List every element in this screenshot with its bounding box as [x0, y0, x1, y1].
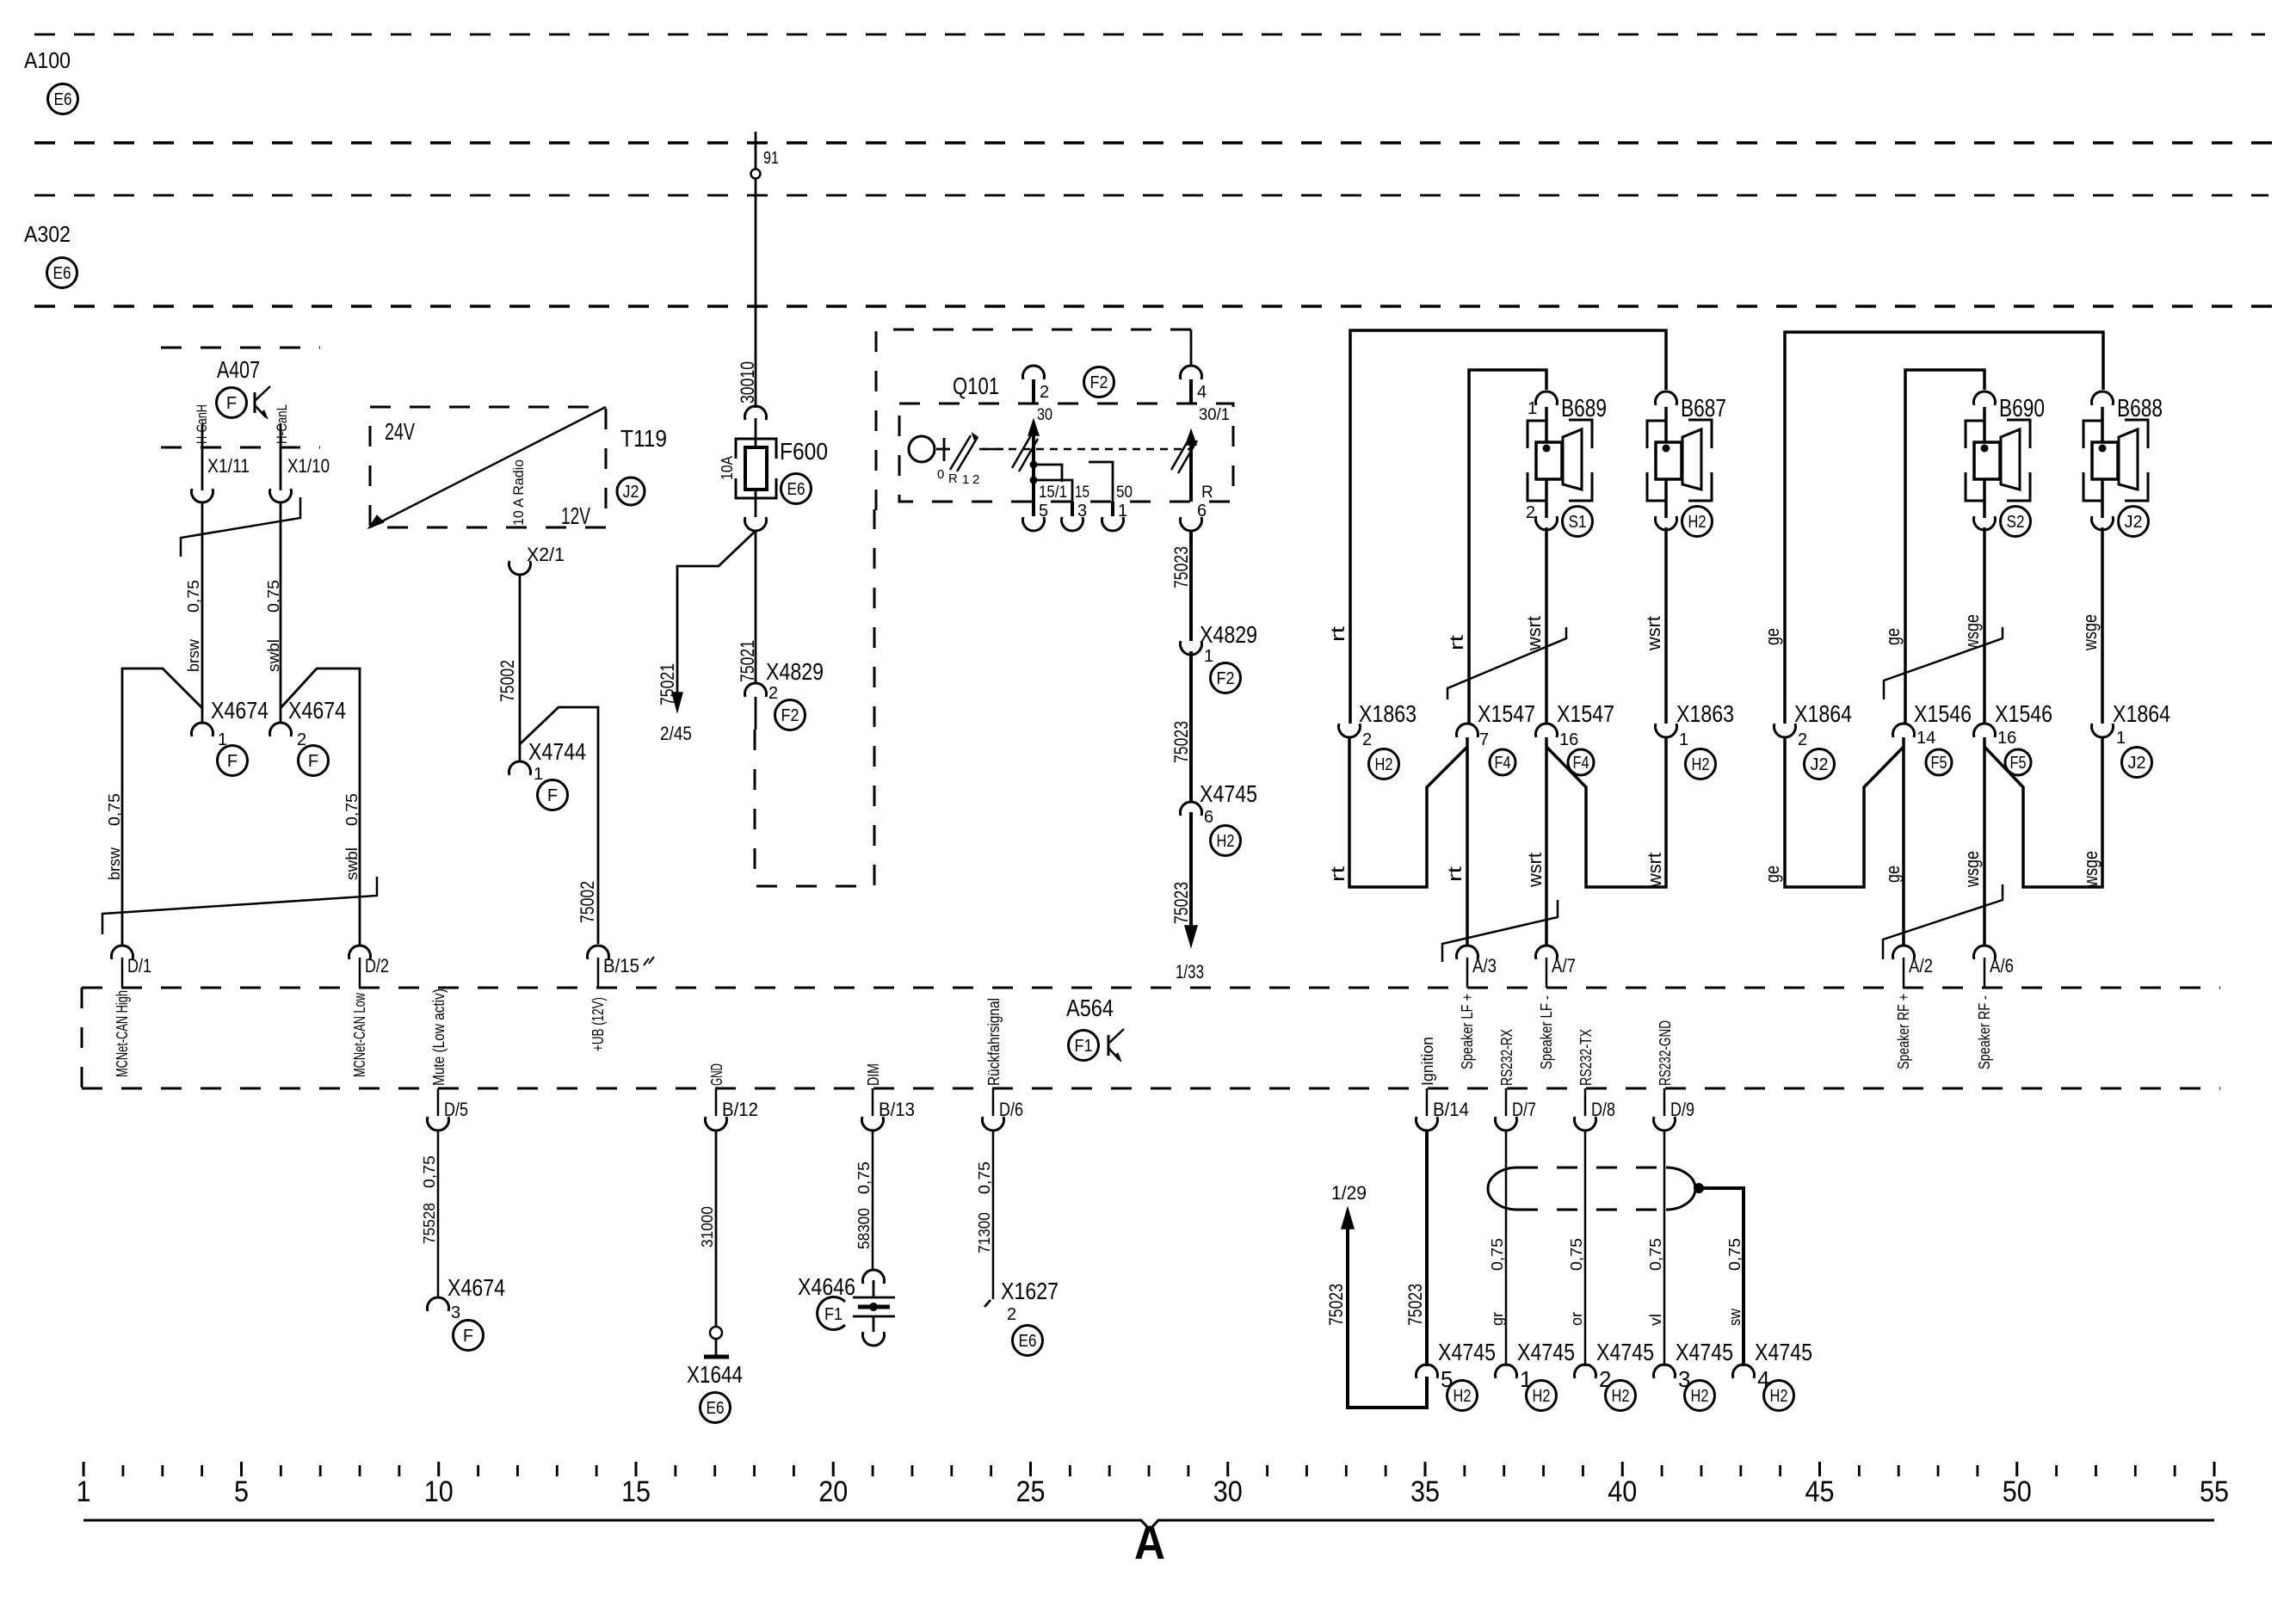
svg-text:1: 1: [1520, 1366, 1532, 1392]
svg-text:14: 14: [1916, 729, 1935, 748]
svg-text:swbl: swbl: [343, 847, 361, 880]
svg-text:X1/11: X1/11: [207, 455, 250, 477]
sheet ref J2 for X1864.1: [2122, 748, 2152, 778]
connector X1627 pin 2: [984, 1300, 991, 1307]
svg-text:X1644: X1644: [687, 1361, 743, 1388]
svg-text:S1: S1: [1569, 513, 1587, 532]
svg-text:X4646: X4646: [798, 1273, 855, 1300]
mechanical coupling dashed line: [981, 448, 1191, 451]
svg-text:2: 2: [972, 472, 979, 487]
wire 75023 to 1/29 arrow: [1348, 1228, 1427, 1408]
wire 75021 fuse to X4829.2: [755, 531, 757, 682]
svg-text:H2: H2: [1454, 1387, 1472, 1406]
svg-text:F2: F2: [781, 706, 799, 725]
svg-text:wsge: wsge: [1961, 851, 1983, 888]
svg-text:10A: 10A: [719, 456, 736, 480]
svg-text:H2: H2: [1217, 832, 1235, 851]
svg-text:gr: gr: [1489, 1312, 1506, 1326]
sheet ref E6 for X1644: [701, 1393, 731, 1423]
svg-text:F: F: [463, 1327, 473, 1346]
svg-text:0,75: 0,75: [976, 1161, 993, 1194]
svg-text:J2: J2: [1811, 755, 1829, 774]
svg-text:F2: F2: [1217, 669, 1235, 688]
svg-text:7: 7: [1479, 730, 1489, 749]
connector X1863 pin 1: [1656, 724, 1677, 737]
svg-text:swbl: swbl: [265, 639, 282, 672]
svg-text:30/1: 30/1: [1199, 406, 1230, 424]
svg-text:2: 2: [1798, 730, 1807, 749]
svg-text:6: 6: [1204, 808, 1213, 827]
svg-text:X1546: X1546: [1914, 700, 1972, 727]
svg-text:B687: B687: [1681, 395, 1726, 422]
connector Q101 pin 5: [1032, 482, 1035, 516]
wire wsge to A/6: [1983, 737, 1986, 946]
svg-text:X4674: X4674: [211, 697, 268, 724]
svg-text:X2/1: X2/1: [527, 544, 565, 565]
svg-text:+UB (12V): +UB (12V): [589, 997, 607, 1051]
svg-text:75021: 75021: [657, 663, 678, 705]
branch wire 75021 to 2/45: [677, 531, 756, 699]
connector X4829 pin 2: [744, 683, 766, 697]
transistor symbol in A407: [254, 392, 256, 413]
svg-text:0,75: 0,75: [1726, 1238, 1744, 1271]
shield drain junction dot: [1694, 1183, 1704, 1193]
wire bus line 4 (module A302 bottom): [34, 305, 2286, 308]
connector Q101 pin 6: [1181, 517, 1202, 531]
connector X4674 pin 3: [428, 1297, 449, 1311]
svg-text:X1547: X1547: [1557, 700, 1614, 727]
svg-text:F1: F1: [824, 1305, 842, 1324]
svg-text:wsrt: wsrt: [1523, 616, 1545, 651]
connector below F600: [745, 517, 767, 531]
radio unit A564 dashed box left edge: [81, 988, 83, 1088]
svg-text:20: 20: [818, 1476, 848, 1508]
svg-text:2: 2: [768, 684, 778, 703]
svg-text:or: or: [1568, 1312, 1585, 1326]
svg-text:Q101: Q101: [953, 373, 999, 399]
fuse F600 element: [745, 447, 767, 490]
svg-text:A/6: A/6: [1990, 955, 2014, 977]
svg-text:A564: A564: [1066, 995, 1114, 1021]
svg-text:brsw: brsw: [185, 638, 202, 672]
sheet ref F1 for A564: [1069, 1031, 1099, 1061]
sheet ref F2 for X4829.1: [1211, 663, 1241, 693]
svg-text:1: 1: [1118, 502, 1127, 521]
svg-text:F1: F1: [1075, 1037, 1093, 1056]
wire loop inner right (ge to B690): [1905, 370, 1984, 724]
speaker B688: [2083, 421, 2102, 448]
svg-text:75002: 75002: [577, 881, 598, 923]
svg-text:12V: 12V: [561, 502, 590, 529]
control unit A407 dashed box: [161, 347, 320, 349]
wire 75023 to 1/33 arrow: [1189, 812, 1193, 931]
connector D/6 on A564: [992, 1088, 995, 1116]
connector X4745 pin 1: [1496, 1365, 1517, 1378]
svg-text:2: 2: [1007, 1305, 1016, 1324]
svg-text:B689: B689: [1561, 395, 1607, 422]
svg-text:A/3: A/3: [1472, 955, 1497, 977]
svg-text:E6: E6: [707, 1399, 725, 1418]
ignition switch Q101 outer dashed box: [876, 330, 1191, 511]
wire wsrt from B687 to X1863.1: [1664, 527, 1668, 724]
svg-text:rt: rt: [1327, 866, 1349, 882]
ground bar X1644: [704, 1355, 729, 1359]
svg-text:F5: F5: [1931, 754, 1947, 773]
svg-text:0,75: 0,75: [1647, 1238, 1664, 1271]
connector X1/10: [270, 489, 292, 502]
wire wsrt from B689.2 to X1547.16: [1545, 527, 1548, 724]
wire loop inner left (rt to B689): [1469, 370, 1546, 724]
svg-text:3: 3: [451, 1303, 460, 1322]
harness funnel left X4674 to D/1: [122, 668, 202, 946]
svg-text:75023: 75023: [1325, 1284, 1347, 1326]
svg-text:R: R: [948, 471, 958, 486]
connector X1547 pin 7: [1457, 724, 1478, 737]
svg-text:wsrt: wsrt: [1644, 853, 1665, 888]
svg-text:75023: 75023: [1170, 546, 1192, 588]
connector Q101 pin 2: [1023, 366, 1045, 379]
sheet ref H2 for X4745.3: [1685, 1381, 1715, 1411]
sheet ref F2 for Q101: [1084, 367, 1114, 397]
connector X2/1: [509, 561, 530, 575]
svg-text:A302: A302: [24, 221, 71, 247]
svg-text:D/5: D/5: [444, 1099, 468, 1120]
svg-text:J2: J2: [2125, 513, 2143, 532]
connector B/15 on A564: [588, 946, 609, 959]
shield oval around RS232 wires: [1517, 1167, 1666, 1169]
svg-text:16: 16: [1997, 729, 2016, 748]
svg-text:T119: T119: [620, 425, 667, 452]
svg-text:10: 10: [424, 1476, 454, 1508]
svg-text:ge: ge: [1882, 628, 1904, 645]
svg-text:GND: GND: [708, 1063, 725, 1086]
wire brsw 0,75 from X1/11 to X4674 pin1: [201, 502, 204, 723]
sheet ref F5 for X1546.16: [2005, 749, 2031, 775]
svg-text:0,75: 0,75: [1489, 1238, 1506, 1271]
connector X1863 pin 2: [1338, 724, 1360, 737]
connector A/7 on A564: [1536, 946, 1558, 959]
connector D/8 on A564: [1584, 1088, 1587, 1116]
svg-text:1: 1: [77, 1476, 91, 1508]
svg-text:E6: E6: [53, 264, 71, 283]
voltage converter T119 dashed box: [370, 407, 606, 527]
connector A/2 on A564: [1893, 946, 1915, 959]
connector Q101 pin 1: [1111, 502, 1114, 516]
connector A/6 on A564: [1974, 946, 1996, 959]
svg-text:30: 30: [1213, 1476, 1243, 1508]
twisted pair mark right speakers: [1884, 627, 2003, 699]
wire gr from D/7 to X4745.1: [1505, 1131, 1508, 1366]
svg-text:15: 15: [621, 1476, 651, 1508]
svg-text:H2: H2: [1688, 513, 1707, 532]
svg-text:50: 50: [1116, 484, 1133, 502]
wire X1/10 stub: [280, 423, 282, 490]
node 91 terminal circle: [751, 169, 761, 179]
svg-text:X1/10: X1/10: [287, 455, 330, 477]
connector D/7 on A564: [1505, 1088, 1508, 1116]
svg-text:1: 1: [534, 765, 543, 784]
svg-text:55: 55: [2200, 1476, 2229, 1508]
svg-text:Speaker LF +: Speaker LF +: [1459, 994, 1476, 1069]
svg-text:H2: H2: [1691, 1387, 1709, 1406]
svg-text:0: 0: [937, 467, 944, 482]
terminal circle X1644: [710, 1327, 722, 1339]
svg-text:0,75: 0,75: [1568, 1238, 1585, 1271]
svg-text:X4674: X4674: [288, 697, 346, 724]
sheet ref J2 for X1864.2: [1805, 749, 1835, 779]
svg-text:wsge: wsge: [2079, 614, 2101, 651]
connector X4646 top: [862, 1270, 884, 1284]
svg-text:D/7: D/7: [1512, 1099, 1536, 1120]
svg-text:H2: H2: [1375, 755, 1393, 774]
svg-text:MCNet-CAN Low: MCNet-CAN Low: [351, 992, 368, 1077]
scale ruler: [83, 1462, 85, 1476]
svg-text:ge: ge: [1762, 866, 1783, 883]
sheet ref E6 for A100: [48, 84, 78, 114]
switch wiper 0/R/1/2: [950, 435, 971, 470]
svg-text:6: 6: [1197, 502, 1207, 521]
switch contact R (right): [1189, 443, 1193, 502]
connector X4745 pin 3: [1653, 1365, 1675, 1378]
svg-text:24V: 24V: [385, 418, 415, 445]
twisted pair mark below A407: [181, 497, 300, 557]
harness funnel right X4674 to D/2: [281, 668, 360, 946]
svg-text:0,75: 0,75: [106, 793, 123, 826]
svg-text:A/7: A/7: [1552, 955, 1576, 977]
sheet ref F for X4674.3: [454, 1321, 484, 1351]
svg-text:X1627: X1627: [1001, 1278, 1059, 1304]
svg-text:wsrt: wsrt: [1524, 853, 1546, 888]
svg-text:H2: H2: [1692, 755, 1710, 774]
svg-text:4: 4: [1197, 383, 1207, 402]
svg-text:X1864: X1864: [2113, 700, 2170, 727]
svg-text:A407: A407: [217, 356, 260, 383]
svg-text:D/9: D/9: [1670, 1099, 1694, 1120]
wire 75528 from D/5 to X4674.3: [437, 1131, 440, 1297]
svg-text:Mute (Low activ): Mute (Low activ): [430, 989, 447, 1086]
connector X1546 pin 14: [1893, 724, 1915, 737]
sheet ref F5 for X1546.14: [1926, 749, 1952, 775]
svg-text:ge: ge: [1882, 866, 1904, 883]
svg-text:X4745: X4745: [1755, 1339, 1812, 1365]
svg-text:45: 45: [1805, 1476, 1835, 1508]
wire X1/11 stub: [201, 423, 204, 490]
svg-text:91: 91: [763, 149, 779, 168]
link to pin 3 terminal 15: [1034, 480, 1072, 502]
svg-text:1/33: 1/33: [1176, 961, 1204, 983]
svg-text:E6: E6: [787, 480, 805, 499]
wire 30010 from bus to fuse F600: [755, 132, 757, 408]
wire 31000 from B/12 to ground X1644: [715, 1131, 718, 1327]
wire wsge from B690 to X1546.16: [1983, 527, 1986, 724]
connector X4745 pin 5: [1416, 1365, 1437, 1378]
wire 75002 from X2/1 to X4744: [519, 575, 522, 761]
svg-text:2: 2: [1599, 1366, 1611, 1392]
svg-text:B/13: B/13: [879, 1099, 915, 1120]
sheet ref H2 for X4745.5: [1447, 1381, 1478, 1411]
svg-text:0,75: 0,75: [421, 1155, 438, 1188]
connector X1547 pin 16: [1536, 724, 1558, 737]
svg-text:1: 1: [962, 472, 969, 487]
svg-text:rt: rt: [1327, 626, 1349, 642]
svg-text:J2: J2: [2128, 754, 2146, 773]
svg-text:Speaker LF -: Speaker LF -: [1538, 995, 1555, 1069]
connector B/12 on A564: [715, 1088, 718, 1116]
svg-text:75528: 75528: [421, 1203, 438, 1244]
sheet ref E6 for X1627: [1013, 1326, 1043, 1356]
svg-text:3: 3: [1678, 1366, 1690, 1392]
svg-text:H2: H2: [1533, 1387, 1551, 1406]
sheet ref F4 for X1547.7: [1490, 749, 1515, 775]
ruler baseline with pointer A: [83, 1520, 2214, 1530]
connector B/14 on A564: [1426, 1088, 1429, 1116]
arrow to 2/45: [672, 693, 682, 712]
footnote mark at B/15: [644, 957, 654, 965]
svg-text:R: R: [1201, 484, 1213, 502]
sheet ref F1 for X4646 (broken circle): [818, 1297, 845, 1329]
svg-text:75023: 75023: [1170, 721, 1192, 763]
svg-text:A/2: A/2: [1909, 955, 1933, 977]
svg-text:B/15: B/15: [603, 955, 639, 977]
wire 71300 from D/6 to X1627.2: [992, 1131, 995, 1299]
svg-text:X4674: X4674: [447, 1274, 505, 1301]
svg-text:2: 2: [1526, 503, 1535, 522]
svg-text:75023: 75023: [1404, 1284, 1426, 1326]
svg-text:RS232-RX: RS232-RX: [1498, 1029, 1515, 1086]
svg-text:25: 25: [1016, 1476, 1046, 1508]
connector B/13 on A564: [872, 1088, 874, 1116]
wire bus line 1 (module A100 top): [34, 34, 2265, 36]
suppression capacitor X4646: [873, 1280, 875, 1297]
svg-text:F4: F4: [1573, 754, 1589, 773]
link X1863.1 to X1547.16: [1546, 737, 1666, 887]
link X1864.2 to X1546.14: [1785, 737, 1904, 887]
svg-text:0,75: 0,75: [855, 1161, 873, 1194]
svg-text:Speaker RF +: Speaker RF +: [1895, 994, 1912, 1069]
connector X4745 pin 6: [1181, 802, 1202, 816]
svg-text:F4: F4: [1495, 754, 1511, 773]
sheet ref H2 for X1863.2: [1369, 749, 1399, 779]
svg-text:75023: 75023: [1170, 882, 1192, 924]
svg-text:X1546: X1546: [1995, 700, 2052, 727]
sheet ref H2 for X4745.1: [1527, 1381, 1557, 1411]
svg-text:B688: B688: [2117, 395, 2163, 422]
svg-text:X4745: X4745: [1200, 780, 1257, 807]
svg-text:X4744: X4744: [528, 738, 586, 765]
svg-text:58300: 58300: [855, 1208, 873, 1249]
svg-text:75021: 75021: [737, 640, 758, 682]
speaker B687: [1647, 421, 1666, 448]
wire ge to A/2: [1902, 737, 1905, 946]
twisted pair mark left speakers: [1447, 627, 1566, 699]
wire or from D/8 to X4745.2: [1584, 1131, 1587, 1366]
svg-text:sw: sw: [1726, 1308, 1744, 1326]
svg-text:2: 2: [1362, 730, 1372, 749]
link X1863.2 to X1547.7: [1349, 737, 1467, 887]
connector X1864 pin 2: [1774, 724, 1796, 737]
svg-text:75002: 75002: [497, 660, 518, 702]
connector X4744 pin 1: [509, 761, 531, 775]
svg-text:35: 35: [1410, 1476, 1440, 1508]
connector D/9 on A564: [1663, 1088, 1666, 1116]
svg-text:H-CanL: H-CanL: [274, 404, 290, 444]
wire 75023 from X4829.1 to X4745.6: [1189, 651, 1193, 802]
svg-text:X4745: X4745: [1517, 1339, 1575, 1365]
link 15/1: [1034, 465, 1062, 482]
svg-text:H2: H2: [1770, 1387, 1788, 1406]
svg-text:0,75: 0,75: [185, 580, 202, 613]
connector A/3 on A564: [1457, 946, 1478, 959]
harness funnel X4744 to B/15: [520, 707, 598, 944]
svg-text:F: F: [547, 786, 558, 805]
svg-text:0,75: 0,75: [265, 580, 282, 613]
svg-text:10 A Radio: 10 A Radio: [510, 459, 527, 526]
svg-text:A: A: [1134, 1515, 1165, 1569]
svg-text:2/45: 2/45: [660, 723, 692, 744]
connector X4674 pin 2: [270, 723, 292, 736]
svg-text:F: F: [226, 394, 237, 413]
svg-text:ge: ge: [1762, 628, 1783, 645]
svg-text:30: 30: [1037, 406, 1052, 424]
speaker B689: [1528, 421, 1546, 448]
radio unit A564 dashed box bottom edge: [82, 1087, 2220, 1090]
svg-text:Ignition: Ignition: [1419, 1037, 1436, 1086]
sheet ref E6 for F600: [781, 474, 812, 504]
connector X1/11: [192, 489, 213, 502]
svg-text:MCNet-CAN High: MCNet-CAN High: [114, 990, 131, 1077]
wire loop outer left (rt to B687): [1350, 330, 1666, 724]
svg-text:30010: 30010: [737, 361, 758, 404]
sheet ref F4 for X1547.16: [1568, 749, 1594, 775]
svg-text:F5: F5: [2010, 754, 2027, 773]
connector D/2 on A564: [349, 946, 370, 959]
terminal 50 stub: [1089, 462, 1113, 502]
link X1864.1 to X1546.16: [1984, 737, 2102, 887]
fuse F600 outer bracket: [736, 439, 776, 459]
connector X4745 pin 2: [1575, 1365, 1596, 1378]
sheet ref F for A407: [217, 388, 247, 418]
speaker B690: [1966, 421, 1984, 448]
svg-text:A100: A100: [24, 47, 71, 73]
wire bus line 3 (module A302 top): [34, 194, 2268, 197]
svg-text:vl: vl: [1647, 1314, 1664, 1326]
wire 58300 from B/13 to X4646: [872, 1131, 874, 1270]
Q101 inner dashed box: [899, 404, 1233, 502]
sheet ref E6 for A302: [47, 258, 77, 288]
svg-text:X4745: X4745: [1676, 1339, 1733, 1365]
svg-text:50: 50: [2003, 1476, 2032, 1508]
connector Q101 pin 4: [1190, 330, 1193, 366]
svg-text:15: 15: [1075, 484, 1089, 502]
radio unit A564 dashed box top edge: [82, 987, 2220, 989]
converter diagonal: [370, 407, 606, 527]
svg-text:X1864: X1864: [1794, 700, 1852, 727]
ignition lock symbol: [909, 436, 935, 462]
svg-text:X4745: X4745: [1596, 1339, 1654, 1365]
svg-text:Rückfahrsignal: Rückfahrsignal: [985, 998, 1003, 1086]
svg-text:D/8: D/8: [1591, 1099, 1615, 1120]
transistor symbol at A564: [1108, 1035, 1110, 1056]
connector X4674 pin 1: [192, 723, 213, 736]
svg-text:S2: S2: [2007, 513, 2025, 532]
svg-text:wsrt: wsrt: [1643, 616, 1664, 651]
wire rt to A/3: [1466, 737, 1469, 946]
wire bus line 2 (module A100 bottom): [34, 141, 2272, 145]
connector X4745 pin 4: [1732, 1365, 1754, 1378]
wire wsge from B688 to X1864.1: [2101, 527, 2104, 724]
connector D/5 on A564: [437, 1088, 440, 1116]
svg-text:1: 1: [2116, 729, 2126, 748]
